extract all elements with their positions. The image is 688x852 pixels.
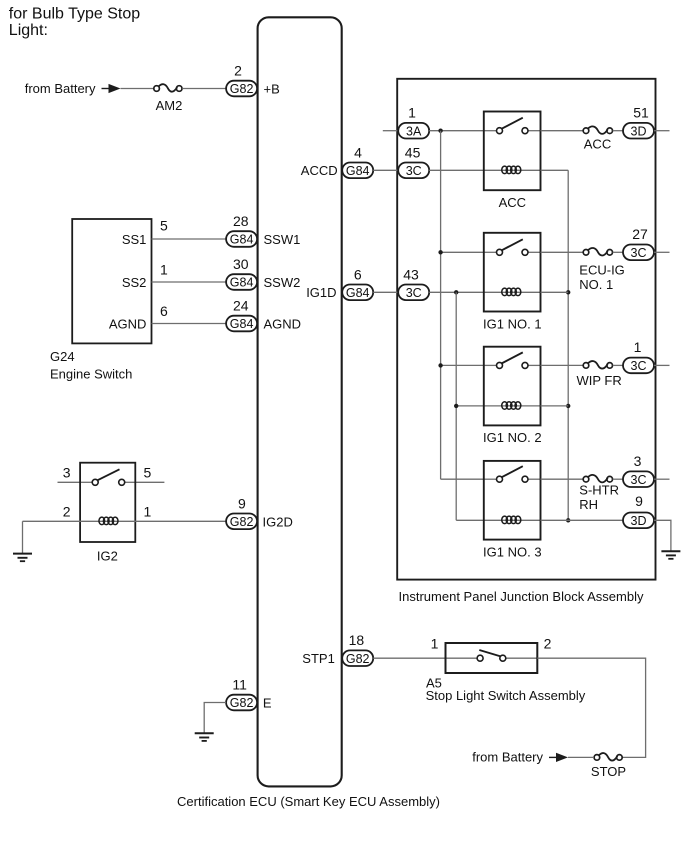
wire 3D pin 9 to ground bbox=[654, 520, 671, 551]
wire fuse to pin 3 bbox=[613, 478, 623, 480]
Certification ECU box bbox=[258, 17, 342, 786]
svg-text:S-HTR: S-HTR bbox=[579, 483, 619, 498]
junction dot bus C / IG1 NO.1 coil bbox=[566, 290, 570, 294]
wire IG1 NO. 1 coil inside bbox=[484, 291, 541, 293]
relay IG1 NO. 1 switch contacts bbox=[497, 239, 529, 255]
svg-text:G84: G84 bbox=[230, 276, 254, 290]
svg-text:from Battery: from Battery bbox=[472, 749, 543, 764]
svg-text:51: 51 bbox=[633, 105, 649, 121]
wire stub right of pin 1 bbox=[654, 364, 670, 366]
svg-text:Certification ECU (Smart Key E: Certification ECU (Smart Key ECU Assembl… bbox=[177, 794, 440, 809]
fuse ECU-IG bbox=[583, 248, 612, 255]
connector G84 pin 24 (AGND) bbox=[226, 316, 257, 332]
svg-text:for Bulb Type Stop: for Bulb Type Stop bbox=[9, 6, 140, 23]
svg-text:1: 1 bbox=[408, 105, 416, 121]
wire IG1 NO. 3 coil inside bbox=[484, 519, 541, 521]
wire bus B to IG1 NO.2 coil bbox=[456, 405, 484, 407]
svg-text:18: 18 bbox=[349, 632, 365, 648]
fuse STOP bbox=[594, 753, 622, 760]
wire fuse to pin 27 bbox=[613, 251, 623, 253]
relay IG1 NO. 3 switch contacts bbox=[497, 466, 529, 482]
wire bus A to IG1 NO.3 switch bbox=[441, 478, 484, 480]
relay IG1 NO. 3 coil bbox=[502, 516, 521, 524]
wire STOP fuse to arrow bbox=[568, 756, 594, 758]
svg-text:3C: 3C bbox=[406, 286, 422, 300]
relay ACC box bbox=[484, 112, 541, 191]
svg-text:WIP FR: WIP FR bbox=[577, 373, 622, 388]
connector G84 pin 4 (ACCD) bbox=[342, 163, 373, 179]
wire fuse to pin 51 bbox=[613, 130, 623, 132]
svg-text:6: 6 bbox=[160, 303, 168, 319]
svg-text:NO. 1: NO. 1 bbox=[579, 277, 613, 292]
svg-text:IG1 NO. 1: IG1 NO. 1 bbox=[483, 316, 542, 331]
relay ACC switch contacts bbox=[497, 118, 529, 134]
svg-text:1: 1 bbox=[144, 503, 152, 519]
wire IG1 NO. 1 switch inside bbox=[484, 251, 497, 253]
wire ACC coil to bus C bbox=[541, 169, 569, 171]
svg-text:2: 2 bbox=[544, 636, 552, 652]
wire IG2 switch left stub bbox=[58, 481, 81, 483]
svg-text:1: 1 bbox=[160, 262, 168, 278]
IG2 coil bbox=[99, 517, 118, 525]
fuse AM2 bbox=[154, 84, 182, 91]
svg-text:G82: G82 bbox=[230, 515, 254, 529]
wire ACC switch to fuse bbox=[541, 130, 584, 132]
relay IG1 NO. 1 coil bbox=[502, 288, 521, 296]
wire bus A to IG1 NO.1 switch bbox=[441, 251, 484, 253]
svg-text:3C: 3C bbox=[631, 246, 647, 260]
relay ACC coil bbox=[502, 166, 521, 174]
wire arrow to fuse AM2 bbox=[121, 88, 154, 90]
svg-text:ECU-IG: ECU-IG bbox=[579, 263, 625, 278]
wire stub right of pin 27 bbox=[654, 251, 670, 253]
svg-text:G84: G84 bbox=[346, 164, 370, 178]
wire ACC coil inside bbox=[484, 169, 541, 171]
fuse S-HTR bbox=[583, 475, 612, 482]
connector G82 pin 2 (+B) bbox=[226, 81, 257, 97]
connector 3D pin 51 bbox=[623, 123, 654, 139]
svg-text:3C: 3C bbox=[631, 359, 647, 373]
wire IG1 NO. 1 switch to fuse bbox=[541, 251, 584, 253]
stop light switch contacts bbox=[477, 650, 506, 661]
wire IG1 NO.3 coil to 3D pin 9 bbox=[541, 519, 624, 521]
connector 3C pin 43 bbox=[398, 285, 429, 301]
svg-text:G82: G82 bbox=[346, 652, 370, 666]
fuse WIP FR bbox=[583, 361, 612, 368]
svg-text:28: 28 bbox=[233, 213, 249, 229]
bus B vertical wire bbox=[455, 292, 457, 520]
svg-text:Stop Light Switch Assembly: Stop Light Switch Assembly bbox=[426, 688, 586, 703]
svg-text:3A: 3A bbox=[406, 124, 422, 138]
svg-text:24: 24 bbox=[233, 298, 249, 314]
connector G82 pin 18 (STP1) bbox=[342, 650, 373, 666]
wire STP1 to stop light switch bbox=[373, 657, 445, 659]
junction dot bus A / IG1 NO.2 bbox=[438, 363, 442, 367]
wire IG2 switch inside bbox=[80, 481, 92, 483]
junction dot bus C / IG1 NO.2 coil bbox=[566, 404, 570, 408]
wire IG2 coil row bbox=[23, 520, 227, 522]
wire IG2 switch right stub bbox=[135, 481, 164, 483]
wire stub right of pin 3 bbox=[654, 478, 670, 480]
wire IG1 NO. 2 coil inside bbox=[484, 405, 541, 407]
bus C vertical wire bbox=[567, 170, 569, 520]
ground (IG2) bbox=[13, 521, 32, 561]
svg-text:5: 5 bbox=[160, 218, 168, 234]
wire IG1 NO. 3 switch to fuse bbox=[541, 478, 584, 480]
svg-text:ACC: ACC bbox=[499, 195, 526, 210]
connector G82 pin 11 (E) bbox=[226, 695, 257, 711]
svg-text:STOP: STOP bbox=[591, 764, 626, 779]
svg-text:30: 30 bbox=[233, 256, 249, 272]
svg-text:9: 9 bbox=[238, 495, 246, 511]
svg-text:+B: +B bbox=[264, 82, 280, 97]
svg-text:Instrument Panel Junction Bloc: Instrument Panel Junction Block Assembly bbox=[399, 589, 644, 604]
connector 3C pin 45 bbox=[398, 163, 429, 179]
wire 3C-43 to IG1 NO.1 coil bbox=[429, 291, 484, 293]
wire ACCD to 3C bbox=[373, 169, 398, 171]
svg-text:SS2: SS2 bbox=[122, 275, 147, 290]
svg-text:IG1 NO. 3: IG1 NO. 3 bbox=[483, 544, 542, 559]
relay IG1 NO. 2 coil bbox=[502, 402, 521, 410]
wire stop light switch inside bbox=[446, 657, 478, 659]
relay IG1 NO. 2 box bbox=[484, 347, 541, 426]
svg-text:SSW1: SSW1 bbox=[264, 232, 301, 247]
junction dot bus C / IG1 NO.3 coil bbox=[566, 518, 570, 522]
IG2 switch contacts bbox=[92, 469, 125, 485]
connector 3D pin 9 bbox=[623, 513, 654, 529]
connector G84 pin 28 (SSW1) bbox=[226, 231, 257, 247]
wire IG1 NO.1 coil to bus C bbox=[541, 291, 569, 293]
svg-text:11: 11 bbox=[232, 677, 247, 693]
svg-text:G82: G82 bbox=[230, 82, 254, 96]
junction dot bus B / IG1 NO.2 coil bbox=[454, 404, 458, 408]
connector 3C pin 1 bbox=[623, 358, 654, 374]
svg-text:3C: 3C bbox=[406, 164, 422, 178]
svg-text:STP1: STP1 bbox=[302, 651, 335, 666]
svg-text:AGND: AGND bbox=[264, 317, 302, 332]
svg-text:RH: RH bbox=[579, 497, 598, 512]
svg-text:G24: G24 bbox=[50, 349, 75, 364]
relay IG1 NO. 3 box bbox=[484, 461, 541, 540]
wire IG1 NO. 2 switch to fuse bbox=[541, 364, 584, 366]
svg-text:6: 6 bbox=[354, 266, 362, 282]
relay IG1 NO. 1 box bbox=[484, 233, 541, 312]
wire stub right of pin 51 bbox=[654, 130, 670, 132]
from Battery arrow (top) bbox=[102, 84, 121, 93]
svg-text:43: 43 bbox=[403, 266, 419, 282]
ground (junction block) bbox=[661, 551, 680, 559]
svg-text:G84: G84 bbox=[230, 233, 254, 247]
svg-text:IG2D: IG2D bbox=[263, 514, 293, 529]
svg-text:2: 2 bbox=[234, 63, 242, 79]
svg-text:27: 27 bbox=[632, 226, 648, 242]
wire SS2 bbox=[152, 281, 227, 283]
svg-text:3: 3 bbox=[634, 453, 642, 469]
svg-text:ACCD: ACCD bbox=[301, 163, 338, 178]
svg-text:Light:: Light: bbox=[9, 22, 48, 39]
wire 3C-45 to ACC coil bbox=[429, 169, 484, 171]
wire fuse to pin 1 bbox=[613, 364, 623, 366]
engine switch box G24 bbox=[72, 219, 151, 343]
connector G84 pin 6 (IG1D) bbox=[342, 285, 373, 301]
svg-text:SSW2: SSW2 bbox=[264, 275, 301, 290]
wire fuse AM2 to pin +B bbox=[182, 88, 226, 90]
svg-text:AM2: AM2 bbox=[156, 98, 183, 113]
svg-text:ACC: ACC bbox=[584, 136, 611, 151]
svg-text:from Battery: from Battery bbox=[25, 81, 96, 96]
wire stop light switch to STOP fuse bbox=[537, 658, 645, 757]
svg-text:3: 3 bbox=[63, 464, 71, 480]
svg-text:3D: 3D bbox=[631, 124, 647, 138]
wire bus A to IG1 NO.2 switch bbox=[441, 364, 484, 366]
svg-text:E: E bbox=[263, 696, 272, 711]
wire 3A left stub bbox=[383, 130, 398, 132]
connector 3C pin 27 bbox=[623, 245, 654, 261]
junction dot 3A/bus bbox=[438, 129, 442, 133]
svg-text:3D: 3D bbox=[631, 514, 647, 528]
wire IG1 NO.2 coil to bus C bbox=[541, 405, 569, 407]
connector G82 pin 9 (IG2D) bbox=[226, 514, 257, 530]
svg-text:IG1 NO. 2: IG1 NO. 2 bbox=[483, 430, 542, 445]
svg-text:45: 45 bbox=[405, 144, 421, 160]
from Battery arrow (bottom) bbox=[549, 753, 568, 762]
wire IG1 NO. 2 switch inside bbox=[484, 364, 497, 366]
wire ACC switch inside bbox=[484, 130, 497, 132]
junction dot bus A / IG1 NO.1 bbox=[438, 250, 442, 254]
fuse ACC bbox=[583, 126, 612, 133]
IG2 relay box bbox=[80, 463, 135, 542]
svg-text:4: 4 bbox=[354, 144, 362, 160]
svg-text:9: 9 bbox=[635, 493, 643, 509]
wire IG1D to 3C bbox=[373, 291, 398, 293]
connector 3A pin 1 bbox=[398, 123, 429, 139]
wire 3A to ACC switch bbox=[429, 130, 484, 132]
stop light switch box A5 bbox=[446, 643, 538, 673]
svg-text:SS1: SS1 bbox=[122, 232, 147, 247]
wire IG1 NO. 3 switch inside bbox=[484, 478, 497, 480]
wire E to ground bbox=[204, 703, 226, 734]
svg-text:5: 5 bbox=[144, 464, 152, 480]
svg-text:1: 1 bbox=[634, 339, 642, 355]
wire SS1 bbox=[152, 238, 227, 240]
svg-text:IG1D: IG1D bbox=[306, 285, 336, 300]
svg-text:2: 2 bbox=[63, 503, 71, 519]
svg-text:Engine Switch: Engine Switch bbox=[50, 367, 132, 382]
connector 3C pin 3 bbox=[623, 471, 654, 487]
junction dot IG1D/bus B bbox=[454, 290, 458, 294]
svg-text:G84: G84 bbox=[230, 317, 254, 331]
svg-text:3C: 3C bbox=[631, 473, 647, 487]
svg-text:IG2: IG2 bbox=[97, 549, 118, 564]
svg-text:1: 1 bbox=[431, 636, 439, 652]
svg-text:G84: G84 bbox=[346, 286, 370, 300]
svg-text:AGND: AGND bbox=[109, 316, 147, 331]
wire bus B to IG1 NO.3 coil bbox=[456, 519, 484, 521]
relay IG1 NO. 2 switch contacts bbox=[497, 352, 529, 368]
bus A vertical wire bbox=[440, 131, 442, 480]
wire AGND bbox=[152, 323, 227, 325]
connector G84 pin 30 (SSW2) bbox=[226, 274, 257, 290]
svg-text:G82: G82 bbox=[230, 696, 254, 710]
ground (E) bbox=[195, 733, 214, 741]
Instrument Panel Junction Block box bbox=[397, 79, 655, 580]
